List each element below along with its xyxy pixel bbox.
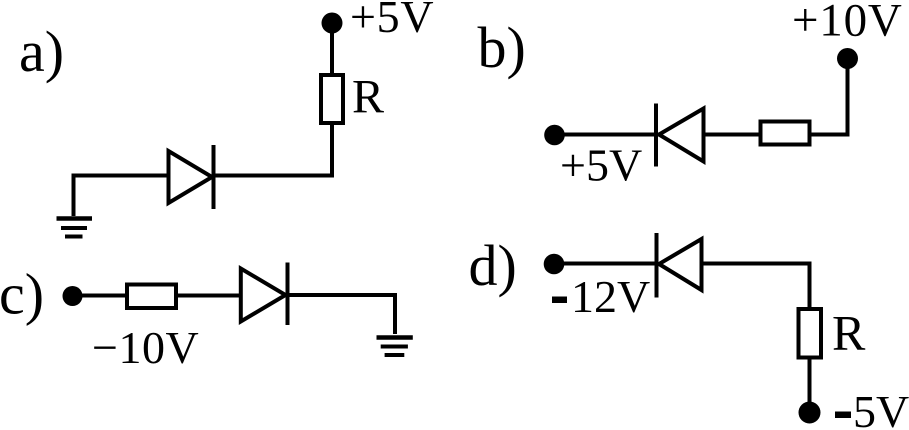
ground symbol bar 1 (c) xyxy=(377,335,413,340)
ground symbol bar 2 (a) xyxy=(61,226,87,230)
diode cathode bar (b) xyxy=(654,104,658,167)
diode cathode bar (a) xyxy=(212,145,216,209)
wire: resistor to -5V dot (d) xyxy=(808,358,812,403)
node -12V input dot (d) xyxy=(544,254,565,275)
resistor R (a) xyxy=(321,75,343,123)
diode triangle (b) xyxy=(659,109,704,162)
wire: +5V dot to diode cathode bar (b) xyxy=(555,133,657,137)
wire: -12V dot to diode cathode bar (d) xyxy=(554,262,657,266)
svg-text:c): c) xyxy=(0,262,44,327)
node -5V supply dot (d) xyxy=(799,402,821,424)
svg-text:+5V: +5V xyxy=(350,0,434,42)
wire: +5V dot down to resistor R (a) xyxy=(330,23,334,77)
node +10V supply dot (b) xyxy=(837,48,858,69)
svg-text:12V: 12V xyxy=(571,271,650,322)
wire: +10V dot to corner to resistor (b) xyxy=(810,59,848,135)
svg-text:+5V: +5V xyxy=(560,140,642,191)
-5V label minus sign (d) xyxy=(835,412,851,419)
svg-text:d): d) xyxy=(469,233,517,298)
wire: diode to ground corner (c) xyxy=(288,295,396,334)
resistor (b) xyxy=(761,122,810,145)
wire: diode anode to corner to resistor (d) xyxy=(702,264,810,310)
diode triangle (d) xyxy=(659,239,702,290)
ground symbol bar 3 (c) xyxy=(385,353,405,357)
wire: dot to resistor (c) xyxy=(73,294,128,298)
-12V label minus sign (d) xyxy=(552,297,567,304)
ground symbol bar 2 (c) xyxy=(381,345,408,349)
svg-text:b): b) xyxy=(478,15,526,80)
node +5V supply dot (a) xyxy=(322,13,343,34)
svg-text:−10V: −10V xyxy=(92,322,199,373)
wire: resistor to corner to diode cathode (a) xyxy=(214,121,333,176)
wire: diode anode to ground corner (a) xyxy=(74,176,173,217)
diode cathode bar (c) xyxy=(286,263,290,326)
diode cathode bar (d) xyxy=(655,233,659,298)
svg-text:R: R xyxy=(832,305,866,361)
diode triangle (c) xyxy=(241,269,286,322)
ground symbol bar 3 (a) xyxy=(65,235,83,239)
ground symbol bar 1 (a) xyxy=(57,216,93,221)
svg-text:R: R xyxy=(352,71,384,124)
node -10V input dot (c) xyxy=(63,286,83,306)
resistor R (d) xyxy=(799,309,822,358)
node +5V input dot (b) xyxy=(544,125,565,146)
wire: resistor to diode (c) xyxy=(178,294,241,298)
svg-text:+10V: +10V xyxy=(792,0,903,47)
svg-text:5V: 5V xyxy=(853,386,909,430)
diode triangle (a) xyxy=(169,151,213,203)
resistor (c) xyxy=(127,285,176,309)
svg-text:a): a) xyxy=(19,19,64,84)
wire: resistor to diode cathode (b) xyxy=(658,133,760,137)
